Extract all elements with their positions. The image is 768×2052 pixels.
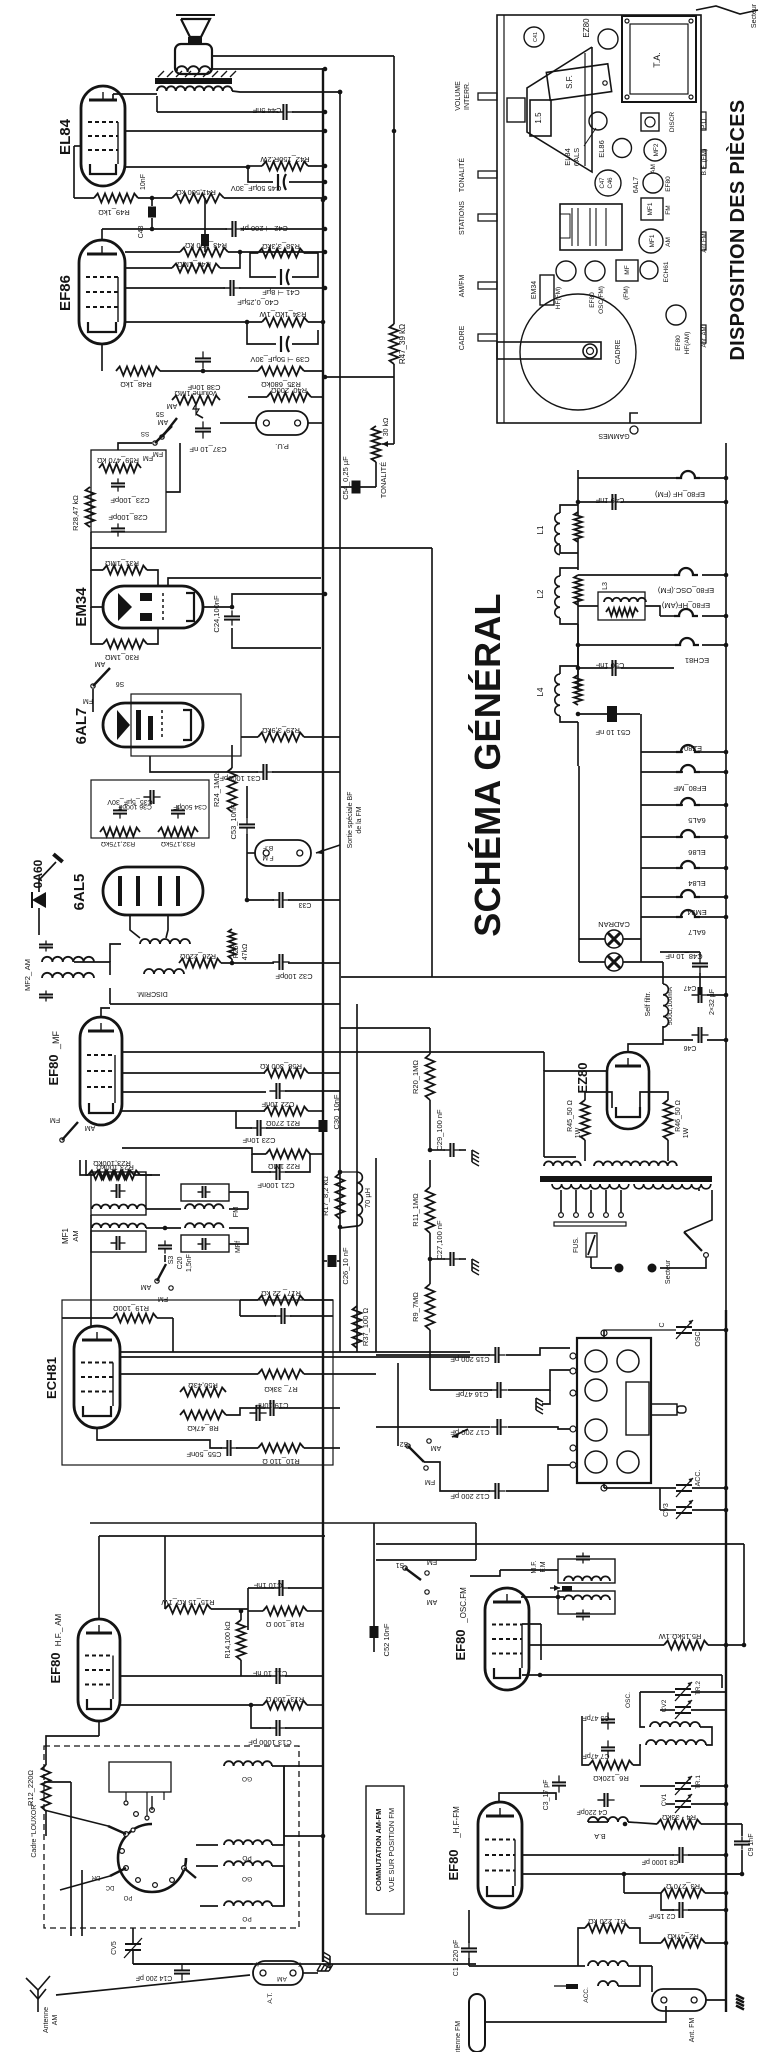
svg-text:0A60: 0A60	[31, 859, 45, 888]
wire hbus 1523	[90, 1522, 476, 1524]
wire comm wires	[196, 1844, 218, 1846]
wire hbus 1352	[120, 1351, 470, 1353]
wire c27	[430, 1258, 445, 1260]
wire EL84 cathode row	[125, 166, 248, 168]
svg-text:6AL5: 6AL5	[688, 816, 706, 825]
svg-text:C54_0,25 µF: C54_0,25 µF	[341, 456, 350, 500]
svg-text:C51 10 nF: C51 10 nF	[595, 728, 630, 737]
wire R38C41 ends	[250, 253, 276, 277]
resistor R20_1M vertical	[426, 1054, 435, 1100]
resistor R34_1k1W	[262, 318, 308, 327]
svg-text:EF80: EF80	[675, 335, 682, 351]
svg-text:R30_1MΩ: R30_1MΩ	[105, 653, 139, 662]
capacitor C19_10nF	[274, 1315, 281, 1317]
capacitor C2 15nF	[672, 1909, 679, 1911]
wire lamps	[578, 766, 580, 962]
svg-text:C36 100pF: C36 100pF	[118, 803, 152, 810]
chassis knob tonalite	[478, 171, 497, 178]
resistor R13_100	[263, 1701, 307, 1710]
chassis ECH81	[640, 261, 658, 279]
svg-text:CADRAN: CADRAN	[598, 920, 630, 929]
capacitor MF1 AM cap2	[111, 1242, 117, 1244]
heater 6AL5	[676, 798, 700, 805]
wire conn	[303, 1972, 318, 1974]
svg-text:EM34: EM34	[531, 281, 538, 299]
wire box to AM switch	[118, 443, 152, 450]
capacitor C23b_10nF	[250, 1127, 257, 1129]
svg-text:EL84: EL84	[563, 148, 572, 166]
svg-text:STATIONS: STATIONS	[459, 201, 466, 235]
node R41 bus	[321, 198, 326, 203]
svg-text:R41,500 kΩ: R41,500 kΩ	[176, 188, 216, 197]
svg-text:L2: L2	[536, 589, 545, 598]
svg-text:MF1: MF1	[647, 202, 654, 215]
wire mf row3	[122, 1091, 266, 1093]
svg-text:Volume 1MΩ: Volume 1MΩ	[174, 389, 218, 398]
svg-text:C55_50nF: C55_50nF	[186, 1450, 221, 1459]
svg-text:MF1: MF1	[649, 234, 656, 247]
svg-text:R50,43Ω: R50,43Ω	[188, 1381, 218, 1390]
wire hfam plate frame	[99, 1535, 325, 1537]
wire sec right	[698, 1189, 700, 1191]
capacitor C21_100nF	[269, 1171, 276, 1173]
svg-text:C53_10nF: C53_10nF	[229, 804, 238, 839]
wire vstub 476	[475, 1523, 477, 1560]
chassis EZ80 tube	[598, 29, 618, 49]
chassis EF80 osc	[585, 261, 605, 281]
connector A-AM	[253, 1961, 303, 1985]
box MF FM	[558, 1559, 615, 1583]
wire acc cv3	[603, 1482, 605, 1488]
capacitor C48 10nF	[699, 956, 701, 963]
gang circle 2	[617, 1350, 639, 1372]
hatch 0A60	[53, 854, 62, 862]
svg-text:1.5: 1.5	[534, 112, 543, 124]
wire hf am cath	[98, 1721, 100, 1736]
choke filter	[663, 984, 668, 1027]
capacitor C5 47pF	[607, 1712, 609, 1719]
svg-text:R44_1MΩ: R44_1MΩ	[177, 260, 211, 269]
switch S1	[403, 1566, 407, 1570]
wire R48 to C38	[160, 370, 240, 372]
chassis EM34	[540, 275, 554, 305]
svg-text:EF80: EF80	[453, 1629, 468, 1660]
svg-text:R19_100Ω: R19_100Ω	[113, 1304, 149, 1313]
chassis knob cadre	[478, 334, 497, 341]
tube EF80_MF	[80, 1017, 122, 1125]
node bf	[245, 898, 250, 903]
svg-text:R8_47kΩ: R8_47kΩ	[187, 1424, 219, 1433]
svg-text:C7 47pF: C7 47pF	[583, 1752, 610, 1759]
wire rffm plate	[499, 1793, 556, 1802]
lamp cadran 2	[605, 953, 623, 971]
capacitor C40	[223, 287, 230, 289]
svg-text:C12 200 pF: C12 200 pF	[450, 1492, 490, 1501]
svg-text:C16 47pF: C16 47pF	[455, 1390, 488, 1399]
svg-text:EF80_HF (FM): EF80_HF (FM)	[655, 490, 706, 499]
wire r23 wires	[86, 1160, 94, 1175]
svg-text:DISCR: DISCR	[669, 112, 676, 133]
svg-text:AM: AM	[431, 1444, 442, 1451]
svg-text:EF80: EF80	[46, 1054, 61, 1085]
wire mf rows	[122, 1051, 544, 1053]
svg-text:R24_1MΩ: R24_1MΩ	[212, 773, 221, 807]
svg-text:B.F. (FM): B.F. (FM)	[701, 149, 708, 176]
capacitor C28_100pF	[117, 523, 119, 528]
svg-text:R43_100 kΩ: R43_100 kΩ	[185, 241, 227, 250]
svg-text:500Ω,100mA: 500Ω,100mA	[667, 986, 674, 1025]
svg-text:L4: L4	[536, 687, 545, 696]
svg-text:ECH81: ECH81	[685, 656, 709, 665]
wire filt	[662, 1026, 664, 1040]
wire fm mid	[640, 1785, 675, 1787]
arrow sortie	[316, 845, 340, 853]
coil BA	[588, 1817, 628, 1822]
wire R40 ends	[248, 396, 267, 398]
wire r15 right	[211, 1608, 248, 1610]
wire r18	[248, 1610, 263, 1612]
wire S6 down	[92, 689, 94, 712]
svg-text:C2 15nF: C2 15nF	[649, 1912, 676, 1919]
resistor R19_100	[113, 1314, 157, 1323]
svg-text:P.U: P.U	[701, 119, 708, 130]
svg-text:AM: AM	[52, 2015, 59, 2026]
svg-text:1W: 1W	[683, 1127, 690, 1138]
svg-text:C: C	[659, 1322, 666, 1327]
box MF1 FM bottom	[181, 1235, 229, 1252]
capacitor C51 black	[607, 706, 617, 722]
resistor R35_680k	[258, 367, 304, 376]
svg-text:EL84: EL84	[688, 879, 706, 888]
tube EF80 RF FM	[478, 1802, 522, 1908]
svg-text:C23_100pF: C23_100pF	[110, 496, 150, 505]
switch AM-FM top	[153, 441, 157, 445]
heater EF80 OSC FM	[674, 568, 698, 575]
svg-text:AM: AM	[71, 1230, 80, 1241]
svg-text:R3_270 Ω: R3_270 Ω	[666, 1882, 700, 1891]
resistor R8_47k	[180, 1411, 226, 1420]
wire heater2	[578, 574, 674, 576]
capacitor C26 black	[328, 1255, 337, 1267]
wire r23 wires	[80, 1160, 88, 1175]
chassis gammes	[630, 413, 638, 423]
svg-text:R1. 220 kΩ: R1. 220 kΩ	[588, 1917, 626, 1926]
svg-text:C47: C47	[600, 177, 606, 189]
chassis cadre bar	[497, 342, 601, 359]
wire c52	[373, 1523, 375, 1626]
tube 6AL7	[103, 703, 203, 747]
svg-text:S6: S6	[116, 680, 125, 687]
capacitor C12 200pF	[488, 1490, 495, 1492]
svg-text:R48_1kΩ: R48_1kΩ	[120, 380, 152, 389]
resistor R38_3k3	[258, 249, 304, 258]
wire bottom long	[284, 1765, 324, 1767]
wire EF86 cathode	[101, 344, 103, 371]
coil PO mid	[224, 1840, 272, 1845]
transformer primary R	[594, 1161, 677, 1166]
svg-text:C24,100nF: C24,100nF	[212, 595, 221, 633]
svg-text:6AL7: 6AL7	[688, 928, 706, 937]
svg-text:C15 200 pF: C15 200 pF	[450, 1355, 490, 1364]
wire discrim row	[110, 1003, 340, 1005]
resistor R58_300k	[264, 1069, 308, 1078]
svg-text:AM: AM	[85, 1124, 96, 1131]
wire c1 net	[468, 1910, 470, 1943]
tube EM34 internals	[118, 593, 132, 621]
wire cv4	[603, 1330, 605, 1338]
svg-text:C29_100 nF: C29_100 nF	[435, 1109, 444, 1151]
wire c15	[376, 1354, 490, 1356]
svg-text:C27,100 nF: C27,100 nF	[435, 1220, 444, 1260]
transformer core	[540, 1176, 712, 1182]
capacitor C13 1000pF	[269, 1727, 276, 1729]
svg-text:GO: GO	[242, 1875, 252, 1882]
capacitor C43 10nF	[151, 198, 153, 206]
tube EF86	[79, 240, 125, 344]
switch FM-AM mf	[60, 1138, 64, 1142]
chassis knob volume	[478, 93, 497, 100]
svg-text:R21 270Ω: R21 270Ω	[266, 1119, 300, 1128]
connector BF FM	[255, 840, 311, 866]
svg-text:F.M: F.M	[540, 1561, 547, 1572]
svg-text:R26_220Ω: R26_220Ω	[180, 952, 216, 961]
capacitor C20_1,5nF	[164, 1240, 166, 1245]
coil 70uH	[357, 1172, 362, 1226]
resistor R42_150R	[262, 162, 308, 171]
choke L4	[555, 674, 560, 716]
wire discrim left	[109, 988, 111, 1004]
node C42 bus	[338, 90, 343, 95]
svg-text:C41: C41	[533, 32, 539, 42]
resistor R23_100k	[88, 1171, 134, 1180]
wire EF86 rows	[125, 251, 180, 253]
diode 0A60	[32, 892, 46, 908]
trimmer CV4	[676, 1326, 692, 1328]
svg-text:C3_17 pF: C3_17 pF	[543, 1780, 550, 1811]
svg-text:R33,175kΩ: R33,175kΩ	[161, 840, 195, 847]
coil ant fm 2	[598, 1981, 618, 1986]
wire r3	[522, 1873, 742, 1875]
svg-text:FM: FM	[665, 205, 672, 214]
resistor R28_47k vertical	[86, 487, 95, 527]
svg-text:R58_300 kΩ: R58_300 kΩ	[260, 1062, 302, 1071]
wire heater left rail	[577, 598, 579, 666]
lamp cadran 1	[605, 930, 623, 948]
wire c23b	[236, 1111, 252, 1128]
wire heater return	[341, 976, 726, 978]
wire heater stubs	[641, 751, 683, 753]
capacitor C32 100pF	[272, 961, 279, 963]
wire r5	[529, 1644, 664, 1646]
wire EL84 cathode	[74, 145, 82, 147]
wire c14	[181, 1963, 183, 1965]
connector P.U.	[256, 411, 308, 435]
capacitor C30 black	[319, 1120, 328, 1132]
svg-text:1,5nF: 1,5nF	[186, 1254, 193, 1272]
wire hbus 1540	[376, 1543, 744, 1545]
svg-text:C49 1nF: C49 1nF	[595, 496, 624, 505]
wire c51	[578, 713, 607, 715]
svg-text:CV5: CV5	[111, 1941, 118, 1955]
coil osc fm 1	[650, 1722, 700, 1727]
svg-text:Sortie spéciale BF: Sortie spéciale BF	[347, 792, 354, 849]
svg-text:EF80: EF80	[589, 292, 596, 308]
label COMMUTATION box	[366, 1786, 404, 1914]
svg-text:R29_3,9kΩ: R29_3,9kΩ	[262, 726, 300, 735]
capacitor C27_100nF	[443, 1258, 450, 1260]
svg-text:EZ80: EZ80	[582, 18, 591, 38]
svg-text:S.F.: S.F.	[565, 75, 574, 89]
resistor R15_15k1W	[165, 1605, 211, 1614]
wire cv5	[132, 1928, 134, 1944]
capacitor C38 10nF	[202, 351, 204, 358]
svg-text:B.F: B.F	[263, 844, 273, 851]
trimmer ACC	[676, 1484, 692, 1486]
svg-text:R37_100 Ω: R37_100 Ω	[361, 1308, 370, 1347]
capacitor C43b	[204, 198, 206, 234]
gang circle 1	[585, 1350, 607, 1372]
ground C29	[472, 1150, 479, 1166]
svg-text:PO: PO	[242, 1854, 251, 1861]
switch secteur	[684, 1232, 702, 1251]
wire C39 leads	[247, 322, 276, 344]
wire bottom right bus	[725, 1310, 727, 2012]
gang shaft	[651, 1404, 677, 1415]
wire osc net	[640, 1691, 675, 1693]
svg-text:C34 500pF: C34 500pF	[173, 803, 207, 810]
capacitor C54 black	[352, 481, 361, 494]
speaker coil	[176, 66, 211, 72]
svg-text:R12_220Ω: R12_220Ω	[26, 1770, 35, 1806]
wire oscfm top	[521, 1596, 564, 1598]
svg-text:DISCRIM.: DISCRIM.	[136, 990, 168, 997]
wire c9	[741, 1824, 743, 1836]
node R34 bus	[321, 320, 326, 325]
svg-text:VOLUME: VOLUME	[455, 81, 462, 111]
svg-text:CADRE: CADRE	[615, 339, 622, 364]
wire r13	[120, 1704, 263, 1706]
svg-text:AM: AM	[427, 1598, 438, 1605]
ground C27	[472, 1259, 479, 1275]
coil GO mid	[224, 1861, 272, 1866]
capacitor C19 10nF	[263, 1407, 270, 1409]
wire heater3	[660, 615, 674, 617]
svg-text:AM: AM	[158, 418, 169, 425]
resistor R29_3k9	[258, 733, 304, 742]
resistor R12_220 vertical	[42, 1765, 51, 1811]
resistor R25 vertical	[228, 929, 235, 959]
svg-text:ACC.: ACC.	[583, 1987, 590, 2003]
wire box audio fb	[91, 450, 166, 532]
svg-text:OSC.: OSC.	[625, 1692, 632, 1708]
resistor R31_1M	[103, 566, 147, 575]
capacitor C23_100pF	[117, 478, 119, 483]
svg-text:OSC.: OSC.	[695, 1329, 702, 1346]
svg-text:1W: 1W	[575, 1127, 582, 1138]
resistor R48_1k	[116, 367, 160, 376]
resistor R5_15k1W	[664, 1641, 708, 1650]
svg-text:R31_1MΩ: R31_1MΩ	[105, 559, 139, 568]
ground main bus	[317, 1964, 333, 1971]
wire R34 left	[125, 321, 262, 323]
svg-text:AM/FM: AM/FM	[459, 275, 466, 298]
svg-text:TONALITÉ: TONALITÉ	[379, 462, 388, 499]
chassis EF80 hffm	[556, 261, 576, 281]
svg-text:EF80_HF(AM): EF80_HF(AM)	[661, 601, 710, 610]
secteur dot 2	[648, 1264, 657, 1273]
wire r20	[429, 1100, 431, 1150]
tube EF80 HF AM	[78, 1619, 120, 1721]
gang inner rect	[626, 1382, 649, 1435]
capacitor C4 220pF	[597, 1799, 604, 1801]
svg-text:2×32 µF: 2×32 µF	[709, 989, 716, 1015]
svg-text:S1: S1	[396, 1561, 405, 1568]
heater 6AL7	[676, 910, 700, 917]
svg-text:R22 1MΩ: R22 1MΩ	[268, 1162, 300, 1171]
wire C31 wires	[150, 756, 258, 772]
svg-text:TR.1: TR.1	[695, 1775, 702, 1789]
tube EL84	[81, 86, 125, 186]
svg-text:C32 100pF: C32 100pF	[275, 972, 313, 981]
svg-text:FM: FM	[427, 1558, 437, 1565]
resistor R11_1M vertical	[426, 1187, 435, 1233]
wire 6AL5 net	[92, 962, 110, 975]
svg-text:R46_50 Ω: R46_50 Ω	[675, 1100, 682, 1132]
chassis dial circle	[520, 294, 636, 410]
svg-text:GO: GO	[242, 1775, 252, 1782]
ground conn	[323, 1952, 330, 1968]
chassis outline	[497, 15, 701, 423]
tube EM34	[103, 586, 203, 628]
speaker cone	[181, 19, 210, 37]
svg-text:EM34: EM34	[73, 587, 90, 627]
resistor L3 res	[606, 608, 638, 616]
arrow acc2	[566, 1984, 578, 1989]
chassis SF box	[546, 64, 611, 100]
svg-text:AM: AM	[665, 237, 672, 247]
svg-text:Ant. AM: Ant. AM	[702, 326, 708, 347]
svg-text:C45 50µF_30V: C45 50µF_30V	[231, 184, 282, 193]
tube 6AL5	[103, 867, 203, 915]
svg-text:C28_100pF: C28_100pF	[108, 513, 148, 522]
svg-text:ECH61: ECH61	[663, 261, 670, 282]
wire EM34 left	[91, 570, 103, 607]
resistor L4 res	[574, 675, 582, 705]
gang circle 4	[585, 1419, 607, 1441]
resistor R41_500k	[172, 194, 224, 203]
wire hbus 1560	[376, 1559, 476, 1561]
capacitor C49 1nF	[605, 501, 612, 503]
svg-text:R17_8,2 kΩ: R17_8,2 kΩ	[321, 1176, 330, 1216]
svg-text:EF80_MF: EF80_MF	[673, 784, 706, 793]
wire r17 coil net	[340, 1171, 357, 1173]
svg-text:R20_1MΩ: R20_1MΩ	[411, 1060, 420, 1094]
heater EF80 HF AM	[674, 609, 698, 616]
resistor R49_1k	[94, 194, 138, 203]
svg-text:HF(AM): HF(AM)	[684, 332, 691, 355]
capacitor MF1 FM cap2	[198, 1243, 203, 1245]
resistor R17_22k	[258, 1296, 304, 1305]
resistor R26_220	[179, 959, 221, 968]
capacitor mf fm cap2	[582, 1610, 584, 1614]
svg-text:R5.15kΩ.1W: R5.15kΩ.1W	[658, 1632, 702, 1641]
svg-text:6AL5: 6AL5	[71, 874, 88, 911]
secteur dot 1	[615, 1264, 624, 1273]
wire speaker left	[175, 69, 178, 71]
gang circle 6	[617, 1451, 639, 1473]
svg-text:R32,175kΩ: R32,175kΩ	[101, 840, 135, 847]
wire R34 right	[308, 321, 325, 323]
